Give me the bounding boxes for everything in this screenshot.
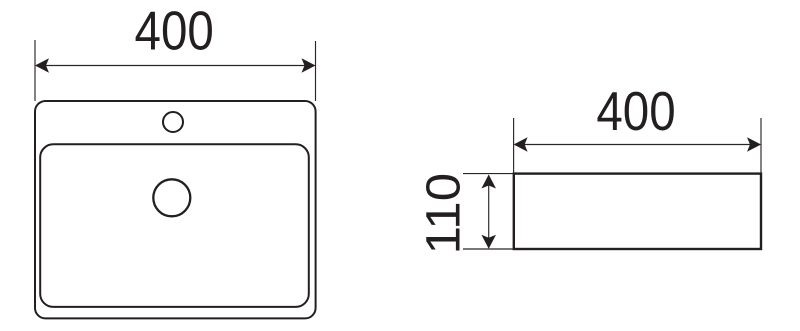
extension line bottom (110) [463,248,514,250]
dimension line 110 [488,176,490,248]
dimension line 400 (side view) [515,144,760,146]
svg-text:400: 400 [596,80,675,142]
extension line left [34,40,36,101]
arrowhead up (110 dim) [481,175,496,189]
arrowhead left (side view dim) [514,137,528,152]
drain hole [153,179,190,216]
extension line top (110) [463,173,514,175]
extension line right [315,41,317,101]
arrowhead down (110 dim) [481,235,496,249]
basin outer rim [35,101,316,318]
basin side profile [514,174,761,249]
extension line left (side) [513,118,515,174]
extension line right (side) [760,118,762,174]
faucet hole [163,112,183,132]
svg-text:400: 400 [135,0,214,61]
arrowhead right (side view dim) [747,137,761,152]
arrowhead left (top view dim) [35,58,49,73]
dimension line 400 (top view) [36,65,315,67]
basin bowl [40,144,309,307]
svg-text:110: 110 [417,173,470,255]
arrowhead right (top view dim) [302,58,316,73]
